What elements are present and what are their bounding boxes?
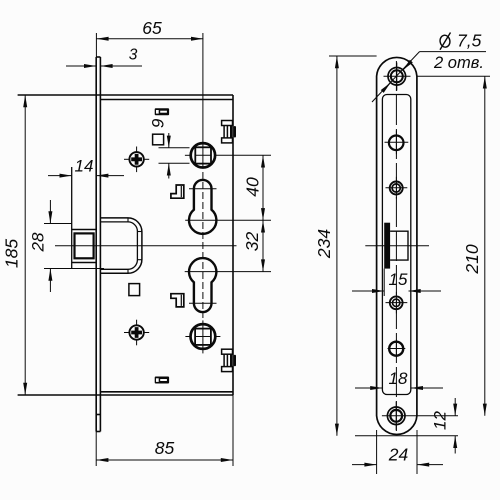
screw hole bottom (382, 402, 458, 431)
small square hole upper (153, 134, 164, 145)
svg-text:185: 185 (2, 239, 22, 268)
svg-text:28: 28 (29, 232, 48, 252)
hole A (385, 131, 409, 155)
screw hole top (384, 63, 411, 91)
hole B (386, 177, 408, 199)
hole D (388, 340, 406, 358)
latch bolt side view (365, 223, 429, 269)
phi symbol (439, 33, 451, 50)
svg-text:3: 3 (129, 47, 138, 64)
vertical dashed centerline front view (202, 172, 204, 318)
dim 28 (44, 200, 104, 292)
latch bolt head (protruding) (72, 167, 97, 269)
latch bolt body (inside case) (100, 218, 142, 273)
slot tab bottom (155, 377, 169, 384)
dim phi 7.5 leader (372, 52, 486, 102)
dim 24 (352, 430, 443, 474)
dim 32 (185, 220, 271, 271)
svg-text:2 отв.: 2 отв. (433, 54, 484, 72)
svg-text:65: 65 (142, 18, 162, 38)
dim 85 (96, 395, 233, 466)
spindle follower upper (191, 143, 215, 167)
svg-text:9: 9 (149, 118, 168, 128)
latch centerline (55, 245, 237, 247)
dim 40 (185, 155, 271, 220)
slot tab top (155, 108, 169, 115)
dim 12 (355, 398, 458, 454)
svg-text:15: 15 (389, 270, 408, 289)
dim 15 (352, 269, 441, 296)
lock case body outline (18, 95, 233, 395)
svg-text:14: 14 (75, 157, 94, 176)
hole C (386, 292, 408, 314)
dim 18 (355, 387, 443, 389)
dim 3 (66, 65, 142, 67)
euro cylinder hole lower (slot down) (189, 258, 217, 312)
right edge element bottom (222, 349, 236, 371)
svg-text:32: 32 (242, 232, 262, 252)
phillips screw lower (124, 320, 149, 346)
dim 234 (329, 56, 377, 436)
dim 65 (96, 33, 203, 168)
svg-text:7,5: 7,5 (457, 31, 482, 51)
side centerline (395, 61, 397, 432)
spindle follower lower (185, 320, 220, 353)
svg-text:234: 234 (314, 229, 334, 259)
faceplate front strip (96, 57, 100, 432)
phillips screw upper (124, 147, 149, 173)
euro cylinder hole upper (slot up) (189, 180, 217, 234)
dim 9 (159, 133, 190, 179)
svg-text:24: 24 (388, 445, 409, 465)
svg-text:85: 85 (155, 438, 175, 458)
L bracket upper (171, 185, 184, 198)
L bracket lower (171, 294, 184, 307)
dim 210 (417, 76, 490, 416)
small square hole lower (129, 284, 140, 296)
right edge element top (222, 121, 236, 143)
dim 14 (48, 175, 124, 177)
svg-text:40: 40 (243, 177, 263, 197)
dim 185 (24, 95, 26, 395)
svg-text:210: 210 (462, 244, 482, 274)
svg-text:12: 12 (431, 411, 450, 430)
svg-text:18: 18 (389, 369, 408, 388)
faceplate side outline (377, 57, 417, 434)
